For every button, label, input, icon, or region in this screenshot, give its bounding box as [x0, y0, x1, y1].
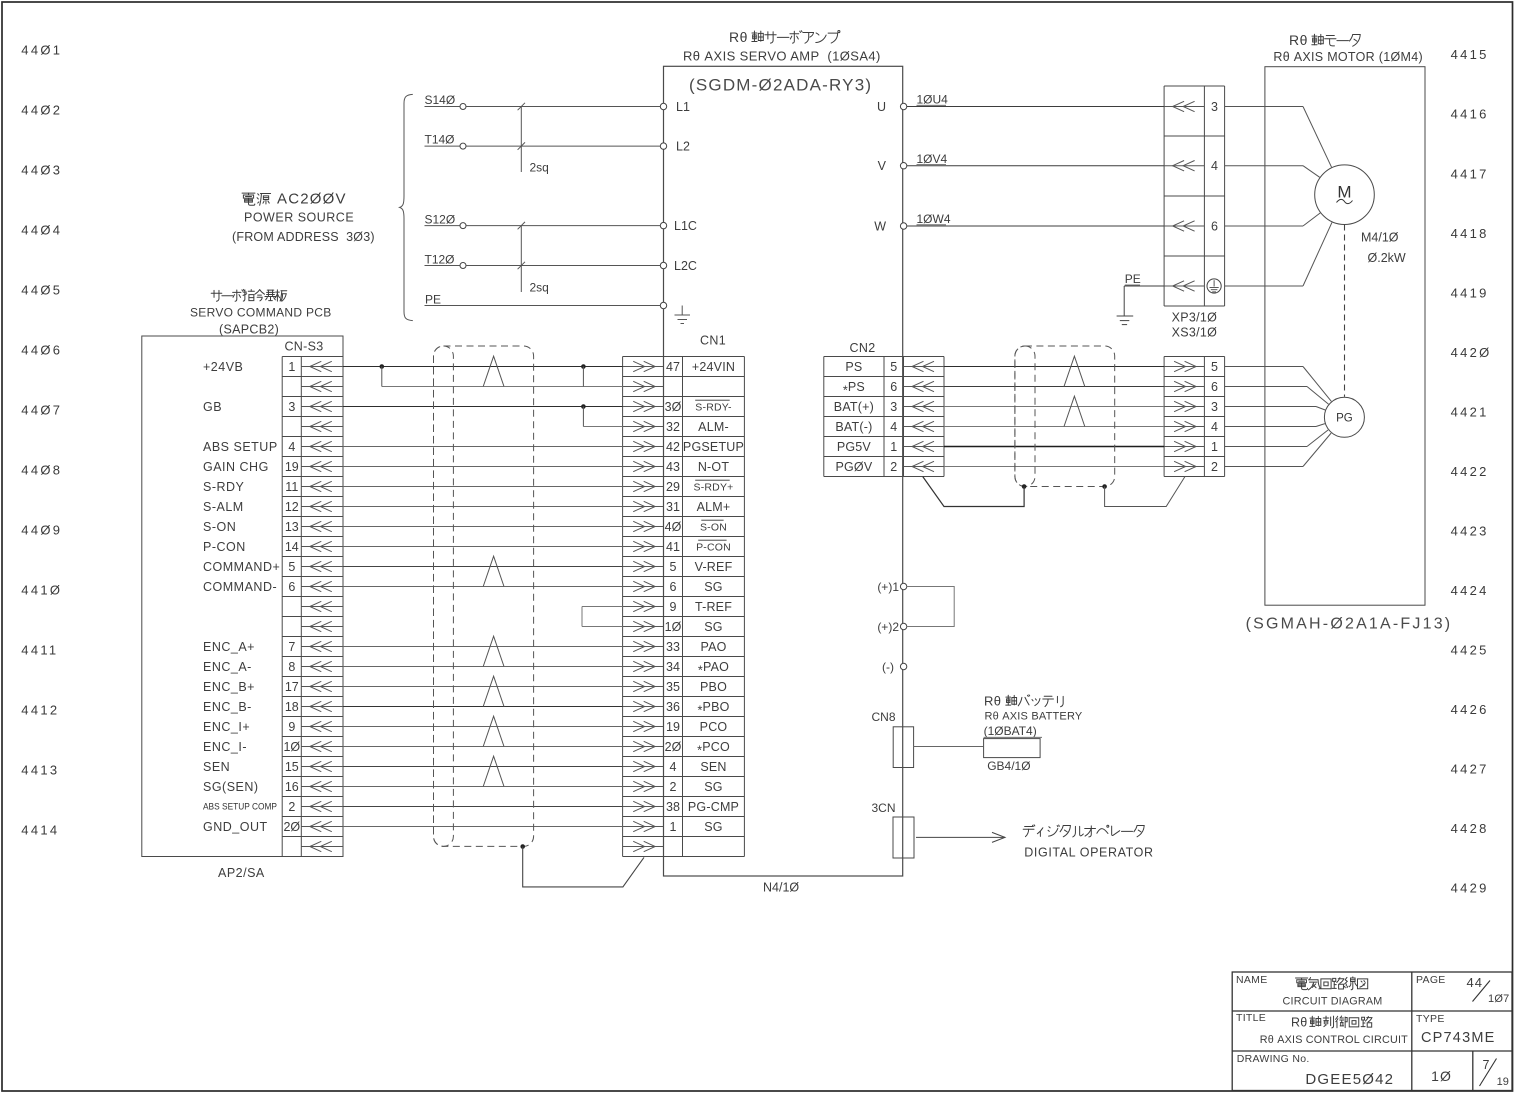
svg-text:6: 6 [1211, 380, 1218, 394]
svg-text:4418: 4418 [1451, 226, 1489, 241]
svg-text:3Ø: 3Ø [665, 400, 682, 414]
svg-text:(FROM ADDRESS 3Ø3): (FROM ADDRESS 3Ø3) [232, 230, 375, 244]
svg-text:12: 12 [285, 500, 299, 514]
cable wires CN-S3 to CN1 [343, 367, 623, 827]
svg-text:4415: 4415 [1451, 47, 1489, 62]
svg-text:4414: 4414 [21, 823, 59, 838]
XS3 encoder pin numbers [1211, 360, 1218, 474]
battery title japanese [984, 694, 1063, 709]
svg-text:L2: L2 [676, 140, 690, 154]
servo amp title japanese [729, 29, 840, 45]
svg-text:5: 5 [670, 560, 677, 574]
svg-text:CN-S3: CN-S3 [284, 339, 323, 353]
svg-text:Rθ AXIS SERVO AMP (1ØSA4): Rθ AXIS SERVO AMP (1ØSA4) [683, 48, 881, 63]
svg-text:ENC_A+: ENC_A+ [203, 640, 255, 654]
svg-text:4: 4 [1211, 159, 1218, 173]
servo amp box U1 [664, 66, 903, 876]
svg-text:POWER SOURCE: POWER SOURCE [244, 210, 354, 224]
encoder cable pair stadium [1015, 346, 1035, 487]
wire battery link (+)1 to (+)2 [907, 587, 954, 627]
svg-text:(SGMAH-Ø2A1A-FJ13): (SGMAH-Ø2A1A-FJ13) [1246, 616, 1453, 633]
svg-text:4426: 4426 [1451, 702, 1489, 717]
wire GB tap to ALM- (row4) [583, 426, 622, 428]
svg-text:(-): (-) [882, 660, 894, 674]
svg-text:1: 1 [890, 440, 897, 454]
wire XP3 pin6 to motor [1225, 225, 1303, 227]
svg-text:4419: 4419 [1451, 285, 1489, 300]
svg-text:DRAWING No.: DRAWING No. [1237, 1053, 1310, 1065]
svg-text:41: 41 [666, 540, 680, 554]
svg-text:GAIN CHG: GAIN CHG [203, 460, 269, 474]
terminal L1 [660, 103, 666, 109]
bracket T-REF to SG (CN1 pins 9-10) [582, 606, 623, 608]
svg-text:1Ø: 1Ø [1431, 1068, 1452, 1084]
svg-text:PAO: PAO [700, 640, 726, 654]
svg-text:3CN: 3CN [871, 801, 895, 815]
wire XP3 pin3 to motor [1225, 106, 1303, 108]
svg-text:4413: 4413 [21, 763, 59, 778]
svg-text:2sq: 2sq [530, 160, 549, 174]
svg-text:CP743ME: CP743ME [1421, 1030, 1496, 1046]
connector CN2 table [824, 357, 944, 477]
svg-text:PE: PE [425, 292, 441, 306]
svg-text:CN8: CN8 [871, 710, 895, 724]
connector CN-S3 table [282, 357, 343, 857]
svg-text:6: 6 [670, 580, 677, 594]
svg-text:4: 4 [890, 420, 897, 434]
svg-text:32: 32 [666, 420, 680, 434]
svg-text:N4/1Ø: N4/1Ø [763, 880, 799, 894]
wire pair return +24V (row2) [382, 386, 623, 388]
svg-text:S-RDY+: S-RDY+ [693, 482, 733, 494]
svg-text:L2C: L2C [674, 259, 697, 273]
svg-text:V-REF: V-REF [695, 560, 733, 574]
shield drain junction left cable [520, 844, 525, 849]
arrow to digital operator [916, 836, 1005, 838]
wire CN8 to battery [914, 746, 984, 748]
svg-text:S-ON: S-ON [203, 520, 236, 534]
svg-text:44: 44 [1467, 975, 1483, 990]
svg-text:T12Ø: T12Ø [425, 252, 455, 266]
svg-text:SG: SG [704, 620, 722, 634]
connector CN8 box [893, 727, 913, 768]
connector 3CN box [893, 817, 914, 858]
junction GB tap [581, 404, 586, 409]
svg-text:ALM+: ALM+ [697, 500, 731, 514]
svg-text:1: 1 [670, 820, 677, 834]
svg-text:BAT(-): BAT(-) [835, 420, 872, 434]
svg-text:1: 1 [288, 360, 295, 374]
svg-text:*PBO: *PBO [697, 700, 729, 718]
svg-text:COMMAND+: COMMAND+ [203, 560, 280, 574]
svg-text:29: 29 [666, 480, 680, 494]
svg-text:DIGITAL OPERATOR: DIGITAL OPERATOR [1024, 845, 1153, 859]
svg-text:CIRCUIT DIAGRAM: CIRCUIT DIAGRAM [1283, 995, 1383, 1007]
svg-text:N-OT: N-OT [698, 460, 730, 474]
svg-text:1ØV4: 1ØV4 [917, 152, 948, 166]
motor title japanese [1289, 32, 1360, 48]
svg-text:36: 36 [666, 700, 680, 714]
svg-text:4Ø: 4Ø [665, 520, 682, 534]
connector XP3/XS3 power side table [1164, 86, 1225, 306]
svg-text:TYPE: TYPE [1416, 1013, 1445, 1025]
svg-text:PG: PG [1336, 412, 1353, 424]
shield wire CN2 shell [923, 477, 1024, 507]
svg-text:M4/1Ø: M4/1Ø [1361, 230, 1399, 244]
svg-text:17: 17 [285, 680, 299, 694]
svg-text:S-RDY: S-RDY [203, 480, 245, 494]
motor to encoder dashed shaft link [1344, 225, 1346, 397]
terminal L2C [660, 262, 666, 268]
svg-text:DGEE5Ø42: DGEE5Ø42 [1305, 1071, 1394, 1088]
svg-text:PS: PS [845, 360, 862, 374]
svg-text:4429: 4429 [1451, 881, 1489, 896]
svg-text:3: 3 [288, 400, 295, 414]
svg-text:SEN: SEN [203, 760, 230, 774]
svg-text:3: 3 [890, 400, 897, 414]
svg-text:ENC_I+: ENC_I+ [203, 720, 250, 734]
svg-text:5: 5 [890, 360, 897, 374]
svg-text:Rθ AXIS BATTERY: Rθ AXIS BATTERY [985, 710, 1083, 722]
terminal PE on amp [660, 302, 666, 308]
battery box GB4/10 [984, 739, 1041, 758]
svg-text:*PAO: *PAO [698, 660, 729, 678]
svg-text:19: 19 [666, 720, 680, 734]
svg-text:42: 42 [666, 440, 680, 454]
wires XS3 to PG encoder [1225, 367, 1332, 467]
svg-text:4425: 4425 [1451, 642, 1489, 657]
svg-text:S12Ø: S12Ø [425, 212, 456, 226]
svg-text:38: 38 [666, 800, 680, 814]
junction +24V tap 2 [581, 364, 586, 369]
wire gauge 2sq marker upper [520, 107, 522, 173]
wire gauge 2sq marker lower [520, 226, 522, 292]
svg-text:1ØW4: 1ØW4 [917, 212, 951, 226]
svg-text:1Ø7: 1Ø7 [1488, 993, 1509, 1005]
svg-text:TITLE: TITLE [1236, 1012, 1266, 1024]
svg-text:SEN: SEN [700, 760, 726, 774]
svg-text:U: U [877, 100, 886, 114]
svg-text:3: 3 [1211, 100, 1218, 114]
drawing zone labels left column (4401-4414) [21, 43, 62, 838]
motor winding symbol M [1315, 165, 1375, 225]
svg-text:6: 6 [890, 380, 897, 394]
svg-text:*PS: *PS [843, 380, 865, 398]
svg-text:2sq: 2sq [530, 280, 549, 294]
svg-text:19: 19 [1497, 1076, 1509, 1088]
svg-text:Rθ: Rθ [729, 29, 748, 45]
svg-text:PGSETUP: PGSETUP [683, 440, 744, 454]
svg-text:SG: SG [704, 780, 722, 794]
svg-text:6: 6 [1211, 219, 1218, 233]
svg-text:Rθ: Rθ [1291, 1015, 1307, 1029]
svg-text:44Ø2: 44Ø2 [21, 103, 62, 118]
svg-text:Rθ AXIS CONTROL CIRCUIT: Rθ AXIS CONTROL CIRCUIT [1260, 1034, 1408, 1046]
svg-text:4: 4 [670, 760, 677, 774]
svg-text:SG(SEN): SG(SEN) [203, 780, 259, 794]
svg-text:ENC_B-: ENC_B- [203, 700, 252, 714]
svg-text:44Ø7: 44Ø7 [21, 403, 62, 418]
svg-text:PAGE: PAGE [1416, 974, 1446, 986]
svg-text:GND_OUT: GND_OUT [203, 820, 268, 834]
svg-text:2Ø: 2Ø [283, 820, 300, 834]
terminal L2 [660, 143, 666, 149]
svg-text:5: 5 [288, 560, 295, 574]
svg-text:Rθ: Rθ [984, 694, 1001, 709]
svg-text:33: 33 [666, 640, 680, 654]
svg-text:SERVO COMMAND PCB: SERVO COMMAND PCB [190, 306, 332, 320]
svg-text:1Ø: 1Ø [283, 740, 300, 754]
svg-text:BAT(+): BAT(+) [834, 400, 874, 414]
svg-text:*PCO: *PCO [697, 740, 730, 758]
XP3 protective earth terminal [1207, 279, 1221, 293]
shield drain wire to CN1 shell [523, 847, 644, 887]
svg-text:47: 47 [666, 360, 680, 374]
svg-text:NAME: NAME [1236, 974, 1268, 986]
servo command PCB title japanese [211, 290, 222, 301]
svg-text:2Ø: 2Ø [665, 740, 682, 754]
XP3 arrows [1164, 101, 1204, 291]
shield wire XS3 shell [1105, 477, 1185, 507]
motor box 10M4 [1265, 67, 1425, 606]
CN1 arrows [623, 361, 664, 851]
svg-text:PG5V: PG5V [837, 440, 872, 454]
svg-text:AP2/SA: AP2/SA [218, 866, 265, 880]
svg-text:M: M [1337, 183, 1351, 202]
svg-text:11: 11 [285, 480, 298, 494]
svg-text:4411: 4411 [21, 643, 58, 658]
svg-text:1: 1 [1211, 440, 1218, 454]
ground symbol inside amp [681, 306, 683, 316]
CN1 pin numbers and signal names [665, 360, 744, 834]
svg-text:2: 2 [1211, 460, 1218, 474]
svg-text:S14Ø: S14Ø [425, 93, 456, 107]
connector CN1 table [623, 357, 745, 857]
wire XP3 pin4 to motor [1225, 165, 1303, 167]
svg-text:P-CON: P-CON [203, 540, 246, 554]
svg-text:ALM-: ALM- [698, 420, 729, 434]
svg-text:XP3/1Ø: XP3/1Ø [1172, 311, 1218, 325]
svg-text:CN2: CN2 [850, 341, 876, 355]
svg-text:44Ø3: 44Ø3 [21, 163, 62, 178]
cable shield pair stadium (left cable) [434, 346, 454, 846]
svg-text:44Ø1: 44Ø1 [21, 43, 62, 58]
svg-text:GB: GB [203, 400, 222, 414]
CN-S3 arrows [301, 361, 343, 851]
brace for power source group [400, 94, 413, 320]
svg-text:35: 35 [666, 680, 680, 694]
title block table [1232, 972, 1512, 1091]
terminal L1C [660, 222, 666, 228]
svg-text:V: V [878, 159, 887, 173]
svg-text:PE: PE [1125, 272, 1141, 286]
svg-text:13: 13 [285, 520, 299, 534]
svg-text:44Ø6: 44Ø6 [21, 343, 62, 358]
svg-text:S-ALM: S-ALM [203, 500, 244, 514]
svg-text:4416: 4416 [1451, 107, 1489, 122]
svg-text:4421: 4421 [1451, 404, 1489, 419]
svg-text:6: 6 [288, 580, 295, 594]
junction +24V tap 1 [380, 364, 385, 369]
svg-text:ABS SETUP: ABS SETUP [203, 440, 278, 454]
svg-text:18: 18 [285, 700, 299, 714]
svg-text:4424: 4424 [1451, 583, 1489, 598]
svg-text:31: 31 [666, 500, 680, 514]
svg-text:+24VIN: +24VIN [692, 360, 735, 374]
svg-text:4422: 4422 [1451, 464, 1489, 479]
svg-text:4428: 4428 [1451, 821, 1489, 836]
svg-text:4412: 4412 [21, 703, 59, 718]
svg-text:4: 4 [1211, 420, 1218, 434]
svg-text:4417: 4417 [1451, 166, 1489, 181]
svg-text:44Ø5: 44Ø5 [21, 283, 62, 298]
svg-text:(+)1: (+)1 [877, 580, 899, 594]
svg-text:S-RDY-: S-RDY- [695, 402, 732, 414]
svg-text:16: 16 [285, 780, 299, 794]
svg-text:ENC_I-: ENC_I- [203, 740, 247, 754]
svg-text:2: 2 [670, 780, 677, 794]
svg-text:(SAPCB2): (SAPCB2) [219, 322, 279, 336]
svg-text:(SGDM-Ø2ADA-RY3): (SGDM-Ø2ADA-RY3) [689, 76, 872, 95]
svg-text:Rθ AXIS MOTOR (1ØM4): Rθ AXIS MOTOR (1ØM4) [1273, 50, 1423, 64]
svg-text:T14Ø: T14Ø [425, 132, 455, 146]
svg-text:44Ø8: 44Ø8 [21, 463, 62, 478]
svg-text:9: 9 [288, 720, 295, 734]
svg-text:3: 3 [1211, 400, 1218, 414]
svg-text:2: 2 [890, 460, 897, 474]
svg-text:441Ø: 441Ø [21, 583, 62, 598]
svg-text:8: 8 [288, 660, 295, 674]
svg-text:44Ø4: 44Ø4 [21, 223, 62, 238]
svg-text:W: W [874, 219, 886, 233]
XS3 encoder arrows [1164, 361, 1204, 471]
servo command PCB box AP2/SA [142, 336, 343, 857]
svg-text:PBO: PBO [700, 680, 727, 694]
CN2 signal names and pin numbers [834, 360, 897, 474]
svg-text:1Ø: 1Ø [665, 620, 682, 634]
svg-text:GB4/1Ø: GB4/1Ø [987, 759, 1030, 773]
twisted pair marks encoder cable [1064, 356, 1085, 386]
svg-text:34: 34 [666, 660, 680, 674]
svg-text:1ØU4: 1ØU4 [917, 93, 949, 107]
svg-text:SG: SG [704, 580, 722, 594]
svg-text:19: 19 [285, 460, 299, 474]
svg-text:442Ø: 442Ø [1451, 345, 1492, 360]
svg-text:L1: L1 [676, 100, 690, 114]
shield junction CN2 side [1022, 484, 1027, 489]
svg-text:COMMAND-: COMMAND- [203, 580, 277, 594]
power source label AC200V [242, 191, 347, 208]
ground symbol at PE [1123, 286, 1125, 316]
svg-text:2: 2 [288, 800, 295, 814]
svg-text:L1C: L1C [674, 219, 697, 233]
svg-text:4427: 4427 [1451, 762, 1489, 777]
wire XP3 PE to motor frame [1225, 285, 1303, 287]
svg-text:PCO: PCO [700, 720, 728, 734]
svg-text:9: 9 [670, 600, 677, 614]
svg-text:4423: 4423 [1451, 523, 1489, 538]
encoder cable overall shield [1015, 346, 1115, 487]
svg-text:ABS SETUP COMP: ABS SETUP COMP [203, 802, 277, 812]
svg-text:14: 14 [285, 540, 299, 554]
svg-text:ENC_B+: ENC_B+ [203, 680, 255, 694]
svg-text:PG-CMP: PG-CMP [688, 800, 739, 814]
svg-text:7: 7 [1483, 1058, 1490, 1072]
digital operator label japanese [1023, 825, 1035, 837]
cable overall shield (left cable) [434, 346, 534, 846]
svg-text:PGØV: PGØV [835, 460, 872, 474]
encoder symbol PG [1324, 397, 1364, 437]
connector XS3/XP3 encoder side table [1164, 357, 1225, 477]
svg-text:15: 15 [285, 760, 299, 774]
drawing zone labels right column (4415-4429) [1451, 47, 1492, 895]
wire PE to XP3 [1124, 285, 1164, 287]
svg-text:ENC_A-: ENC_A- [203, 660, 252, 674]
CN-S3 signal names and pin numbers [203, 360, 300, 834]
cable wires CN2 to XS3 [944, 367, 1164, 467]
svg-text:(1ØBAT4): (1ØBAT4) [984, 724, 1037, 738]
svg-text:P-CON: P-CON [696, 542, 731, 554]
svg-text:+24VB: +24VB [203, 360, 243, 374]
svg-text:AC2ØØV: AC2ØØV [277, 191, 347, 208]
svg-text:44Ø9: 44Ø9 [21, 523, 62, 538]
twisted pair marks left cable [483, 356, 504, 786]
svg-text:T-REF: T-REF [695, 600, 732, 614]
svg-text:4: 4 [288, 440, 295, 454]
svg-text:S-ON: S-ON [700, 522, 727, 534]
svg-text:XS3/1Ø: XS3/1Ø [1172, 325, 1218, 339]
CN2 arrows [904, 361, 945, 471]
svg-text:43: 43 [666, 460, 680, 474]
svg-text:Rθ: Rθ [1289, 32, 1308, 48]
svg-text:CN1: CN1 [700, 333, 726, 347]
svg-text:(+)2: (+)2 [877, 620, 899, 634]
svg-text:5: 5 [1211, 360, 1218, 374]
svg-text:SG: SG [704, 820, 722, 834]
svg-text:7: 7 [288, 640, 295, 654]
shield junction XS3 side [1102, 484, 1107, 489]
svg-text:Ø.2kW: Ø.2kW [1368, 251, 1406, 265]
